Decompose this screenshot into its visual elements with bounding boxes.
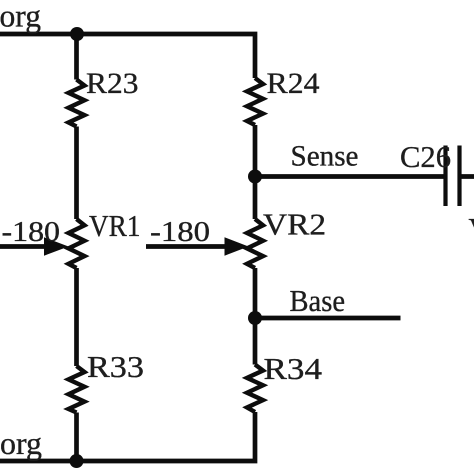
wire left branch bottom segment xyxy=(74,413,79,462)
svg-text:VR1: VR1 xyxy=(89,209,141,243)
wire right branch VR2 to Base node xyxy=(253,268,258,365)
wire left branch VR1 to R33 xyxy=(74,268,79,366)
svg-text:V: V xyxy=(469,213,474,246)
svg-text:R34: R34 xyxy=(264,351,323,386)
VR1 wiper arrowhead xyxy=(44,237,69,255)
node bottom junction xyxy=(70,454,84,468)
wire left branch R23 to VR1 xyxy=(74,127,79,220)
resistor R34 xyxy=(247,365,263,413)
wire right branch R24 to Sense node xyxy=(253,125,258,219)
svg-text:R23: R23 xyxy=(86,68,139,100)
wire C26 right lead xyxy=(460,174,474,179)
node Base xyxy=(248,311,262,325)
wire Base output xyxy=(255,316,401,321)
wire VR1 wiper arrow shaft xyxy=(0,244,48,249)
svg-text:VR2: VR2 xyxy=(263,208,326,242)
svg-text:-180: -180 xyxy=(2,216,60,248)
wire Sense output xyxy=(255,174,446,179)
svg-text:Sense: Sense xyxy=(291,140,359,173)
wire VR2 wiper arrow shaft xyxy=(146,244,227,249)
svg-text:org: org xyxy=(0,0,41,34)
resistor R23 xyxy=(69,80,85,127)
VR2 wiper arrowhead xyxy=(225,237,249,255)
capacitor C26 xyxy=(446,146,460,207)
svg-text:Base: Base xyxy=(290,283,346,318)
svg-text:C26: C26 xyxy=(400,139,451,174)
resistor R33 xyxy=(69,366,85,413)
potentiometer VR2 xyxy=(247,219,263,268)
node top junction xyxy=(70,27,84,41)
potentiometer VR1 xyxy=(69,219,85,268)
wire right branch bottom corner and bottom rail xyxy=(0,412,255,461)
resistor R24 xyxy=(247,78,263,125)
svg-text:R24: R24 xyxy=(267,67,320,100)
wire left branch top segment xyxy=(74,34,79,80)
svg-text:R33: R33 xyxy=(87,349,144,384)
svg-text:-180: -180 xyxy=(150,216,210,248)
svg-text:org: org xyxy=(0,425,42,461)
node Sense xyxy=(248,170,262,184)
wire top rail and right branch top corner xyxy=(0,34,255,78)
